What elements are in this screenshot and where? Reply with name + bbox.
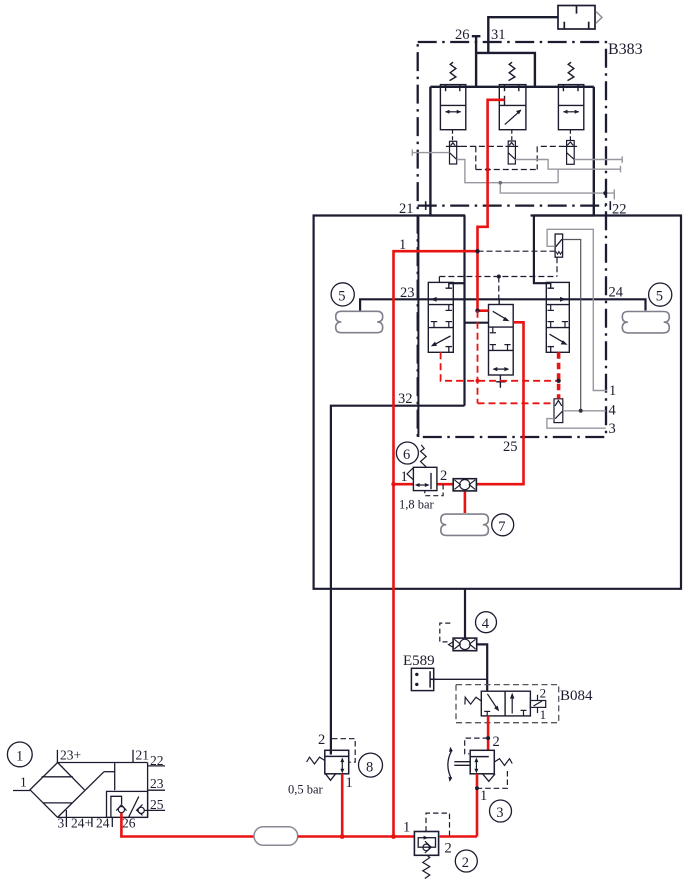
svg-text:1: 1 — [609, 383, 616, 399]
solenoid T2 (coil) — [505, 130, 518, 164]
svg-text:21: 21 — [399, 201, 414, 217]
solenoid valve T2 — [499, 62, 526, 130]
valve C arrow right (24) — [549, 297, 567, 302]
svg-text:5: 5 — [656, 289, 663, 305]
valve 2 red out to valve 3 riser — [440, 835, 477, 838]
air bag 7 — [441, 514, 489, 535]
red drop B084 to valve 3 — [487, 716, 490, 750]
dashed link from supply junction — [478, 250, 556, 252]
svg-text:3: 3 — [58, 816, 65, 831]
APU port ticks top — [57, 750, 133, 763]
silencer outlet triangle — [596, 11, 602, 23]
svg-text:3: 3 — [609, 421, 616, 437]
wire 22 drop (right thick vertical) — [593, 87, 595, 217]
valve 3 manual actuator — [448, 747, 470, 782]
valve C (right 3/2) — [546, 282, 569, 352]
svg-text:1: 1 — [540, 707, 547, 722]
valve 8 red out — [341, 774, 344, 837]
P1 gray loop — [547, 229, 607, 390]
valve 3 vertical arrow — [474, 758, 478, 774]
svg-text:2: 2 — [462, 855, 469, 871]
T2 diagonal arrow — [505, 110, 522, 125]
valve A arrow left (23) — [431, 297, 448, 302]
APU body — [30, 763, 148, 818]
valve 3 spring right — [494, 759, 512, 766]
pressure limiter 8 — [325, 750, 349, 774]
relief valve 6 — [407, 445, 437, 491]
valve B bottom arrow — [493, 367, 510, 371]
svg-text:24+: 24+ — [71, 816, 92, 831]
svg-text:23: 23 — [400, 285, 415, 301]
solenoid T3 (coil) — [564, 130, 578, 165]
svg-text:4: 4 — [609, 403, 617, 419]
wire 22 inside frame to valve C — [534, 216, 594, 284]
solenoid T1 (coil) — [446, 130, 461, 164]
svg-text:31: 31 — [491, 27, 506, 43]
wire net31 silencer feed — [476, 17, 558, 87]
svg-text:E589: E589 — [403, 653, 435, 669]
T3 shuttle arrow — [563, 110, 579, 114]
svg-text:8: 8 — [366, 759, 373, 775]
valve 2 check symbol — [423, 836, 431, 853]
svg-text:2: 2 — [540, 686, 547, 701]
svg-text:23: 23 — [150, 776, 164, 791]
B084 solenoid stub — [530, 695, 545, 713]
svg-text:32: 32 — [398, 391, 413, 407]
P1 output link — [563, 240, 581, 411]
P2 gray line port 3 — [547, 419, 606, 429]
APU governor box — [107, 791, 148, 817]
solenoid valve T1 — [440, 62, 465, 130]
valve 3 (levelling valve) — [470, 750, 494, 774]
harness junction dots — [499, 181, 503, 185]
pilot valve P2 (lower) — [554, 399, 563, 423]
valve 6 internal arrow — [415, 483, 430, 487]
vehicle frame box — [314, 216, 681, 589]
wire 32 L-run — [331, 406, 465, 755]
circle 7 — [492, 514, 514, 536]
valve B mid-left feed from rail — [465, 322, 489, 324]
junction on pilot bus — [486, 168, 490, 172]
throttle check 7a — [453, 479, 476, 491]
svg-text:24: 24 — [609, 285, 624, 301]
harness gray wiring — [412, 150, 622, 200]
svg-text:5: 5 — [338, 289, 345, 305]
red from APU 26 to bus — [121, 813, 254, 837]
APU port 1 stub left — [13, 790, 30, 792]
wire net26 vertical — [472, 36, 481, 87]
E589 wire — [434, 678, 488, 680]
port 4 drop wire — [464, 589, 466, 638]
port 21 tick and label — [425, 201, 427, 210]
pilot valve P1 (upper, antenna) — [555, 234, 563, 257]
red bus capsule to valve 2 — [298, 835, 415, 838]
svg-text:1: 1 — [401, 469, 408, 485]
valve A (left 3/2) — [428, 282, 453, 352]
inline hose capsule — [254, 827, 298, 846]
svg-text:2: 2 — [445, 841, 452, 857]
valve A bottom diagonal arrow — [431, 336, 452, 352]
APU port stubs right — [148, 766, 165, 811]
valve 3 dashed pockets — [465, 738, 508, 788]
svg-text:22: 22 — [612, 202, 627, 218]
B084 dashed enclosure — [456, 685, 559, 723]
svg-text:25: 25 — [150, 797, 164, 812]
valve 8 vertical arrow — [340, 758, 344, 774]
valve A mid ticks — [431, 305, 452, 328]
valve B (centre 3/2) — [489, 299, 514, 375]
P1 pilot dashes to valves — [439, 257, 557, 299]
svg-text:4: 4 — [482, 616, 490, 632]
svg-text:25: 25 — [503, 439, 518, 455]
circle 5 right — [649, 283, 672, 306]
svg-text:B084: B084 — [560, 688, 593, 704]
svg-text:26: 26 — [455, 27, 470, 43]
air processing unit 1 — [7, 742, 32, 767]
red pilot dashes (thin) — [441, 311, 559, 404]
suspension line 23/24 — [360, 299, 645, 311]
valve 8 spring left — [307, 757, 325, 764]
T1 shuttle arrow — [445, 110, 461, 114]
air bag 5 right — [622, 312, 669, 333]
overflow valve 2 — [414, 832, 438, 856]
svg-text:6: 6 — [403, 447, 410, 463]
B084 spring — [465, 697, 481, 704]
svg-text:21: 21 — [136, 748, 150, 763]
pilot dash bus between coils — [461, 146, 564, 169]
check 4 dashed pocket — [440, 623, 451, 642]
B383 supply rail to valves T1-T3 — [430, 86, 593, 88]
P2 gray line port 4 — [563, 410, 606, 412]
red supply network — [394, 100, 524, 837]
air bag 5 left — [336, 311, 383, 332]
wire 21 drop (left thick vertical) — [429, 87, 431, 216]
circle 8 — [359, 753, 383, 777]
circle 4 — [476, 612, 497, 633]
wire 21 inside frame to valve A — [430, 216, 464, 406]
B084 right cell arrow up + tick — [510, 693, 527, 716]
B084 diagonal arrow — [484, 694, 499, 716]
red junction dots — [475, 249, 479, 253]
APU bottom ticks — [66, 810, 112, 827]
svg-text:3: 3 — [496, 805, 503, 821]
red valve3 to bus — [476, 774, 479, 837]
valve B exhaust stub — [496, 375, 505, 388]
valve 2 dashed pilot — [426, 813, 450, 836]
svg-text:0,5 bar: 0,5 bar — [288, 783, 324, 797]
svg-text:26: 26 — [122, 816, 136, 831]
enclosure B383 (dash-dot box) — [418, 42, 606, 437]
APU check valves — [116, 805, 147, 816]
circle 3 — [490, 800, 512, 822]
svg-text:2: 2 — [440, 468, 447, 484]
valve C mid ticks — [548, 305, 569, 328]
svg-text:1,8 bar: 1,8 bar — [399, 498, 435, 512]
valve B top diagonal arrow — [493, 311, 510, 321]
svg-text:7: 7 — [498, 519, 505, 535]
circle 5 left — [331, 283, 354, 306]
valve 8 exhaust triangle — [326, 774, 336, 781]
svg-text:23+: 23+ — [60, 748, 81, 763]
valve C bottom diagonal arrow — [548, 334, 568, 352]
svg-text:24: 24 — [96, 816, 110, 831]
circle 2 — [455, 850, 477, 872]
svg-text:B383: B383 — [608, 41, 643, 58]
svg-text:1: 1 — [20, 775, 27, 790]
port 22 tick and label — [609, 201, 611, 210]
valve B084 (3/2) — [481, 691, 530, 716]
svg-text:1: 1 — [16, 749, 23, 765]
silencer M1 (top right) — [558, 6, 595, 30]
svg-text:22: 22 — [150, 753, 164, 768]
red pilot bold dash valve C to P2 — [557, 352, 561, 399]
svg-text:1: 1 — [403, 820, 410, 836]
svg-text:1: 1 — [346, 775, 353, 791]
circle 6 — [396, 442, 418, 464]
valve B mid ticks — [490, 327, 511, 350]
valve 8 wire 32 in — [330, 750, 332, 754]
solenoid valve T3 — [558, 62, 583, 130]
svg-text:2: 2 — [318, 732, 325, 748]
wire check4 to B084 — [477, 644, 488, 691]
svg-text:1: 1 — [480, 788, 487, 804]
check valve 4 — [449, 638, 477, 651]
valve 2 spring below — [423, 855, 430, 878]
valve 8 dashed pocket — [332, 739, 355, 763]
inner module left edge — [417, 216, 419, 438]
valve 6 dashed pocket — [425, 485, 443, 496]
svg-text:2: 2 — [493, 734, 500, 750]
valve 3 exhaust triangle — [483, 774, 495, 782]
